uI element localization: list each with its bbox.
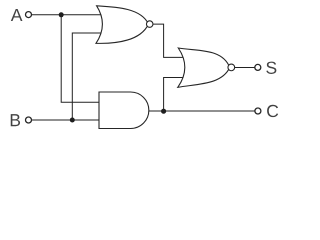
wire NOR2 output to S terminal bbox=[234, 67, 254, 69]
AND gate U3 body bbox=[99, 92, 149, 129]
terminal A bbox=[26, 12, 32, 18]
junction dot on C wire bbox=[161, 109, 166, 114]
terminal B bbox=[26, 117, 32, 123]
label C bbox=[267, 105, 278, 117]
label S bbox=[266, 62, 276, 74]
label A bbox=[11, 9, 23, 21]
wire from node B junction up to NOR1 bottom input bbox=[72, 33, 102, 120]
terminal S bbox=[255, 64, 261, 70]
wire from node A junction down to AND gate top input bbox=[61, 15, 100, 103]
junction dot on wire B bbox=[70, 118, 75, 123]
wire B input to AND gate bottom input bbox=[32, 119, 100, 121]
wire AND output to C terminal bbox=[149, 110, 255, 112]
NOR gate U2 body bbox=[178, 48, 230, 87]
NOR gate U2 output bubble bbox=[228, 64, 235, 71]
NOR gate U1 output bubble bbox=[146, 21, 153, 28]
label B bbox=[11, 114, 20, 126]
wire NOR1 output to NOR2 top input bbox=[153, 24, 184, 57]
junction dot on wire A bbox=[59, 12, 64, 17]
NOR gate U1 body bbox=[96, 6, 149, 44]
wire from junction on C wire up to NOR2 bottom input bbox=[164, 78, 186, 112]
terminal C bbox=[255, 108, 261, 114]
wire A input to NOR1 top input bbox=[32, 14, 101, 16]
